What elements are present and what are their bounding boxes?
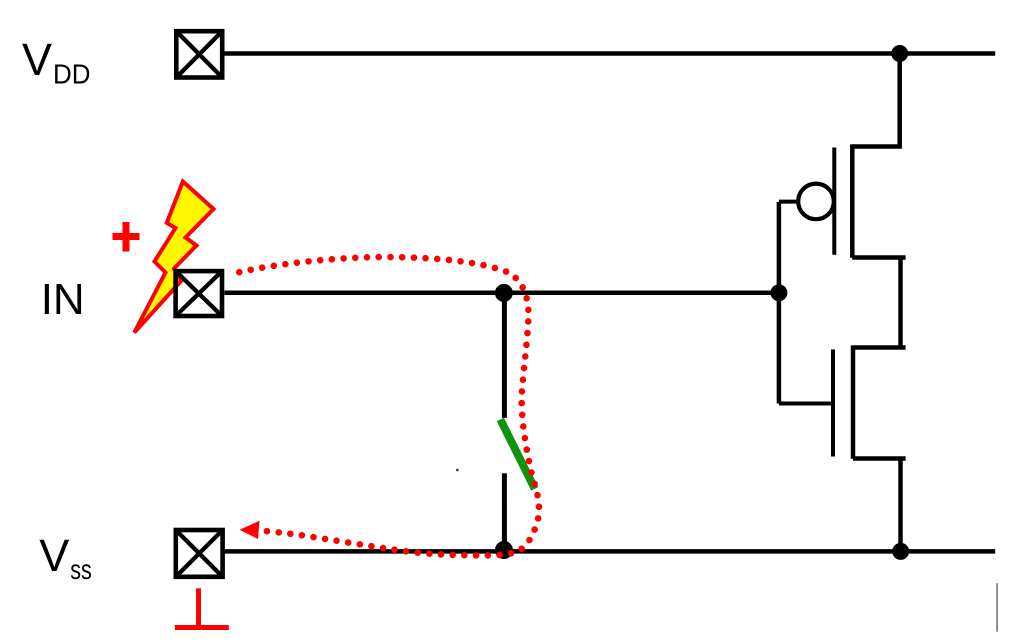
pad VDD (bond pad symbol) <box>176 31 222 77</box>
svg-text:IN: IN <box>41 275 85 324</box>
wire PMOS drain to output node <box>852 258 905 348</box>
ESD discharge path (red dotted curve) <box>239 257 539 555</box>
pad IN (bond pad symbol) <box>176 271 222 316</box>
breakdown path marker (green slash) <box>500 420 534 489</box>
svg-text:ss: ss <box>70 554 92 585</box>
junction IN / gate node <box>770 284 787 301</box>
junction VSS / breakdown stub <box>495 541 513 559</box>
transistor NMOS <box>779 345 906 458</box>
wire gate line (PMOS gate to NMOS gate) <box>777 202 782 404</box>
ESD strike lightning bolt <box>134 182 213 333</box>
ground symbol (red) below VSS pad <box>175 588 229 627</box>
svg-text:V: V <box>39 530 69 581</box>
transistor PMOS <box>779 144 852 257</box>
wire VDD rail <box>225 51 996 56</box>
wire IN net <box>225 291 779 296</box>
svg-text:DD: DD <box>53 58 91 89</box>
wire VDD to PMOS source <box>852 54 899 147</box>
junction VSS / NMOS source <box>892 543 909 560</box>
speck artifact <box>456 469 459 472</box>
pad VSS (bond pad symbol) <box>176 530 223 577</box>
junction IN / breakdown stub <box>495 284 513 302</box>
label VSS <box>39 530 92 585</box>
junction VDD node <box>891 45 908 62</box>
wire VSS rail <box>225 549 996 554</box>
artifact thin line bottom right <box>996 583 997 632</box>
wire NMOS source to VSS rail <box>853 459 906 552</box>
label VDD <box>22 34 91 89</box>
wire gate-oxide stub (upper, from IN node) <box>502 293 507 418</box>
plus sign (positive ESD pulse) <box>113 222 140 252</box>
wire gate-oxide stub (lower, to VSS) <box>502 473 507 551</box>
arrowhead of discharge path <box>240 521 260 539</box>
svg-text:V: V <box>22 34 52 85</box>
